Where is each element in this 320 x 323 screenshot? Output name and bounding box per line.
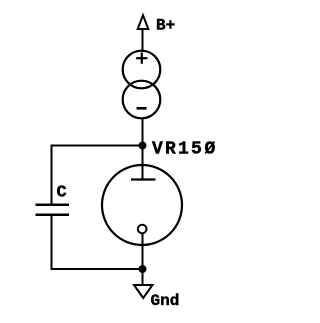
tube cathode terminal circle bbox=[138, 225, 147, 234]
wire node to capacitor branch bbox=[51, 145, 143, 147]
svg-text:C: C bbox=[57, 184, 67, 203]
wire capacitor to bottom rail bbox=[51, 215, 53, 270]
svg-text:Ø: Ø bbox=[205, 140, 216, 160]
ground symbol bbox=[134, 285, 153, 298]
capacitor C bottom plate bbox=[36, 214, 70, 217]
battery B1 positive circle bbox=[123, 51, 161, 89]
svg-text:B+: B+ bbox=[156, 17, 175, 35]
wire left vertical to capacitor bbox=[51, 145, 53, 205]
tube anode plate bar bbox=[131, 178, 156, 180]
node VR150 junction dot bbox=[139, 142, 147, 150]
bottom rail wire bbox=[51, 268, 143, 270]
wire node into tube anode bbox=[142, 146, 144, 180]
battery B1 negative circle bbox=[123, 81, 161, 119]
wire B+ to source bbox=[142, 30, 144, 52]
ground node junction dot bbox=[139, 265, 147, 273]
wire node to ground bbox=[142, 269, 144, 285]
svg-text:Gnd: Gnd bbox=[151, 292, 180, 310]
wire cathode to ground node bbox=[142, 233, 144, 269]
B+ terminal arrow bbox=[138, 15, 149, 29]
svg-text:VR15: VR15 bbox=[152, 140, 204, 160]
minus sign bbox=[137, 107, 147, 110]
capacitor C top plate bbox=[36, 204, 70, 207]
tube V1 envelope bbox=[102, 165, 182, 245]
wire source to node VR150 bbox=[142, 118, 144, 146]
plus sign bbox=[136, 57, 147, 59]
